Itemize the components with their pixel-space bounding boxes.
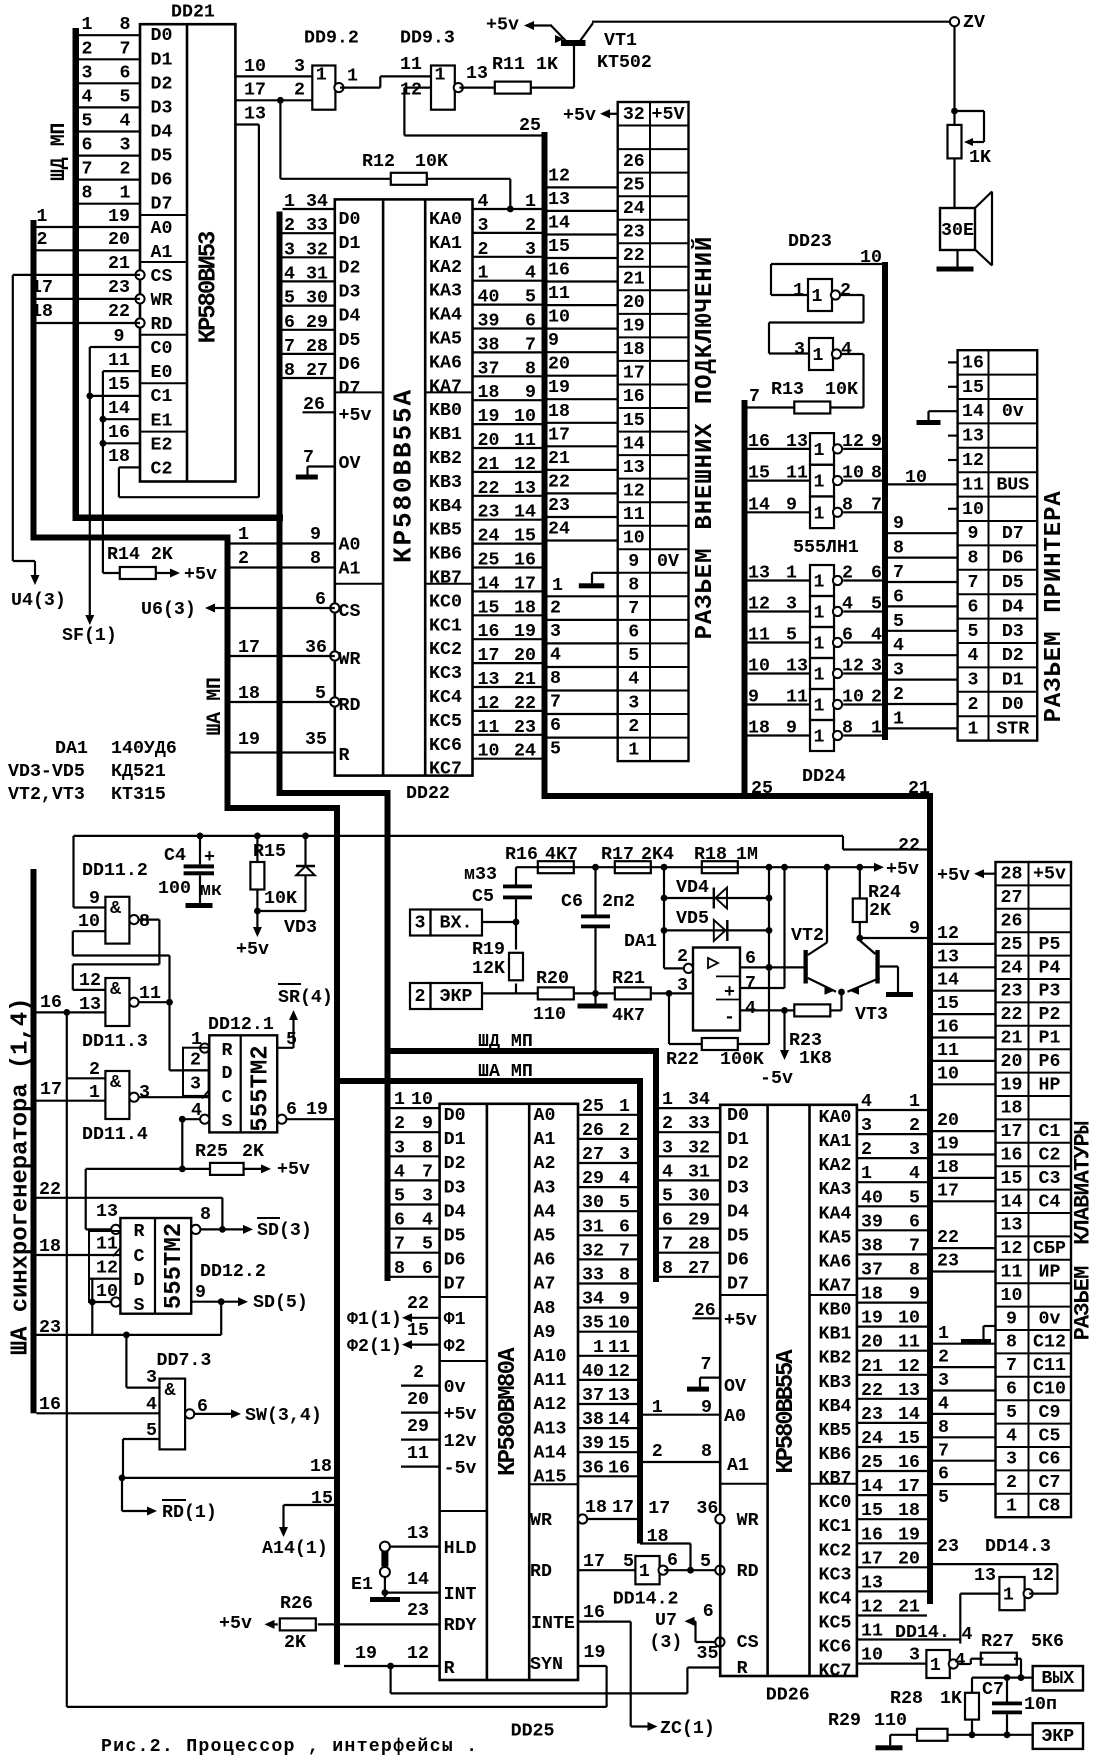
svg-text:RD: RD <box>339 696 361 716</box>
wire bus ShA MP horizontal to DD25 right bus <box>334 1078 643 1544</box>
wire CS of DD22 (pin 6) and U6(3) <box>141 590 360 622</box>
label DD11.2 <box>82 861 148 881</box>
svg-text:5: 5 <box>700 1552 711 1572</box>
svg-text:7: 7 <box>871 495 882 515</box>
svg-text:A3: A3 <box>534 1178 556 1198</box>
svg-text:2: 2 <box>1006 1473 1017 1493</box>
svg-text:23: 23 <box>937 1537 959 1557</box>
pin 23 RDY of DD25 <box>407 1601 477 1636</box>
wire data pin row 4/5 of DD21 <box>79 87 140 107</box>
wire net 3 to connector pin below line 22 <box>548 620 618 642</box>
svg-text:мк: мк <box>200 881 222 901</box>
svg-text:15: 15 <box>514 527 536 547</box>
svg-text:R11: R11 <box>492 55 525 75</box>
svg-text:KA4: KA4 <box>429 306 462 326</box>
wire input 10 of DD11.2 <box>73 912 106 956</box>
wire net 2 to connector pin below line 21 <box>548 596 618 618</box>
svg-text:17: 17 <box>478 646 500 666</box>
wire net 3 to printer pin 3 <box>888 661 958 681</box>
svg-text:1M: 1M <box>736 845 758 865</box>
wire port pin row 18/9 of DD22 <box>473 383 542 403</box>
pin label KB4 of DD26 <box>819 1397 852 1417</box>
wire stub at printer pin 13 <box>948 435 958 437</box>
svg-text:35: 35 <box>697 1644 719 1664</box>
svg-text:R: R <box>134 1222 145 1242</box>
svg-text:KC1: KC1 <box>819 1517 852 1537</box>
svg-text:10: 10 <box>842 464 864 484</box>
wire net 23 to keyboard pin 11 <box>933 1252 996 1272</box>
wire port pin row 3/2 of DD26 <box>857 1116 927 1136</box>
svg-text:25: 25 <box>582 1097 604 1117</box>
svg-text:8: 8 <box>394 1259 405 1279</box>
svg-text:9: 9 <box>786 495 797 515</box>
svg-text:8: 8 <box>968 549 979 569</box>
svg-text:ZC(1): ZC(1) <box>660 1719 715 1739</box>
wire port pin row 14/17 of DD26 <box>857 1477 927 1497</box>
svg-text:1: 1 <box>968 719 979 739</box>
wire net 14 to keyboard pin 23 <box>933 971 996 991</box>
svg-text:DD21: DD21 <box>171 3 215 23</box>
wire net 19 to connector pin 16 <box>548 378 618 399</box>
svg-text:14: 14 <box>514 503 536 523</box>
pin label D0 of DD22 <box>339 210 361 230</box>
svg-text:13: 13 <box>608 1386 630 1406</box>
wire net 13 to keyboard pin 24 <box>933 947 996 967</box>
svg-text:KC0: KC0 <box>429 592 462 612</box>
pin label KB3 of DD26 <box>819 1373 852 1393</box>
pin label D5 of DD26 <box>727 1227 749 1247</box>
svg-text:5: 5 <box>662 1187 673 1207</box>
svg-text:16: 16 <box>898 1453 920 1473</box>
wire HLD of DD25 (pin 13) from jumper E1 <box>390 1524 477 1559</box>
svg-text:13: 13 <box>244 105 266 125</box>
wire bus ShD MP vertical left of DD21 <box>73 28 284 521</box>
svg-text:20: 20 <box>937 1111 959 1131</box>
svg-text:KB0: KB0 <box>819 1301 852 1321</box>
svg-text:WR: WR <box>737 1511 759 1531</box>
svg-text:KA1: KA1 <box>429 234 462 254</box>
svg-text:2: 2 <box>842 564 853 584</box>
svg-text:8: 8 <box>619 1266 630 1286</box>
svg-text:12: 12 <box>96 1259 118 1279</box>
svg-text:SD(3): SD(3) <box>257 1221 312 1241</box>
svg-text:R19: R19 <box>472 940 505 960</box>
svg-text:OV: OV <box>724 1377 746 1397</box>
svg-text:33: 33 <box>688 1114 710 1134</box>
wire DD9.3 output 13 to R11 <box>459 64 495 88</box>
wire address pin row 1/11 of DD25 <box>578 1338 637 1358</box>
pin label D2 of DD25 <box>444 1154 466 1174</box>
svg-text:12: 12 <box>79 971 101 991</box>
svg-text:15: 15 <box>861 1501 883 1521</box>
pin label KB1 of DD22 <box>429 425 462 445</box>
svg-text:14: 14 <box>748 495 770 515</box>
svg-text:16: 16 <box>40 993 62 1013</box>
pin box 10 S of DD12.2 <box>89 1279 120 1302</box>
svg-text:D0: D0 <box>727 1106 749 1126</box>
svg-text:8: 8 <box>200 1205 211 1225</box>
op-amp DA1 140UD6 <box>624 932 756 1031</box>
svg-text:Ф2(1): Ф2(1) <box>347 1337 402 1357</box>
connector external 32-pin table <box>618 102 689 761</box>
wire net 18 to connector pin 15 <box>548 402 618 423</box>
svg-text:C7: C7 <box>982 1680 1004 1700</box>
svg-text:12: 12 <box>478 694 500 714</box>
svg-text:3: 3 <box>294 57 305 77</box>
wire net 17 to connector pin 14 <box>548 425 618 446</box>
wire net 16 to connector pin 21 <box>548 261 618 282</box>
wire data pin row 2/9 of DD25 <box>391 1114 440 1134</box>
wire net 5 to connector pin below line 27 <box>548 738 618 760</box>
svg-text:3: 3 <box>861 1116 872 1136</box>
label 555LN1 <box>793 538 859 558</box>
svg-text:4: 4 <box>968 646 979 666</box>
svg-text:6: 6 <box>120 63 131 83</box>
svg-text:D: D <box>134 1271 145 1291</box>
svg-text:6: 6 <box>82 136 93 156</box>
wire data pin row 3/8 of DD25 <box>391 1138 440 1158</box>
resistor R19 12K <box>472 922 523 993</box>
wire R of DD22 (net 19, pin 35) <box>231 730 350 766</box>
pin label A9 of DD25 <box>534 1323 556 1343</box>
svg-text:KA7: KA7 <box>429 377 462 397</box>
wire port pin row 40/5 of DD22 <box>473 288 542 308</box>
wire bus of sync generator (left edge) <box>31 869 37 1413</box>
svg-text:P2: P2 <box>1039 1005 1061 1025</box>
svg-text:KB6: KB6 <box>819 1445 852 1465</box>
svg-text:A11: A11 <box>534 1371 567 1391</box>
pin box 3 C of DD12.1 <box>183 1070 209 1096</box>
svg-text:10: 10 <box>898 1309 920 1329</box>
svg-text:19: 19 <box>861 1309 883 1329</box>
pin label A8 of DD25 <box>534 1299 556 1319</box>
pin label KB1 of DD26 <box>819 1325 852 1345</box>
label ShD MP vertical <box>48 123 71 181</box>
label DD14.4 split by wire <box>895 1623 973 1645</box>
wire net 1 to printer pin 1 <box>888 709 958 729</box>
svg-text:23: 23 <box>861 1405 883 1425</box>
svg-text:R13: R13 <box>771 380 804 400</box>
svg-text:P3: P3 <box>1039 982 1061 1002</box>
inverter DD14.2 (pins 5-6) <box>613 1551 679 1610</box>
resistor R27 5K6 <box>981 1632 1064 1678</box>
svg-text:C2: C2 <box>151 460 173 480</box>
svg-text:22: 22 <box>478 479 500 499</box>
wire R net loop below DD25 <box>391 1666 688 1693</box>
wire net 23 row <box>37 1318 222 1388</box>
svg-text:D1: D1 <box>151 50 173 70</box>
svg-text:1K: 1K <box>940 1689 962 1709</box>
svg-text:DD24: DD24 <box>802 767 846 787</box>
svg-text:8: 8 <box>701 1442 712 1462</box>
svg-text:20: 20 <box>623 293 645 313</box>
svg-text:VD4: VD4 <box>676 878 709 898</box>
svg-text:4: 4 <box>1006 1426 1017 1446</box>
svg-text:34: 34 <box>688 1090 710 1110</box>
svg-text:24: 24 <box>623 199 645 219</box>
wire port pin row 25/16 of DD26 <box>857 1453 927 1473</box>
svg-text:РАЗЬЕМ: РАЗЬЕМ <box>1071 1266 1096 1341</box>
svg-text:20: 20 <box>514 646 536 666</box>
svg-text:1: 1 <box>628 740 639 760</box>
svg-text:7: 7 <box>422 1162 433 1182</box>
svg-text:A0: A0 <box>151 219 173 239</box>
svg-text:м33: м33 <box>464 865 497 885</box>
wire ZV down to volume pot <box>951 26 958 125</box>
wire port pin row 38/7 of DD22 <box>473 335 542 355</box>
svg-text:4: 4 <box>120 112 131 132</box>
svg-text:4: 4 <box>955 1651 966 1671</box>
svg-text:1: 1 <box>814 728 825 748</box>
svg-text:14: 14 <box>1001 1192 1023 1212</box>
svg-text:17: 17 <box>623 364 645 384</box>
svg-text:2: 2 <box>478 240 489 260</box>
svg-text:3: 3 <box>968 671 979 691</box>
svg-text:ВХ.: ВХ. <box>440 914 473 934</box>
svg-text:R29: R29 <box>828 1711 861 1731</box>
svg-text:38: 38 <box>861 1236 883 1256</box>
svg-text:13: 13 <box>937 947 959 967</box>
svg-text:DA1: DA1 <box>55 739 88 759</box>
pin label KA7 of DD22 <box>429 377 462 397</box>
svg-text:2: 2 <box>662 1114 673 1134</box>
svg-text:4: 4 <box>745 999 756 1019</box>
inverter DD24 (pins 13-12) <box>748 657 883 690</box>
pin label D4 of DD21 <box>151 123 173 143</box>
pin label KB3 of DD22 <box>429 473 462 493</box>
wire output 3 of DD11.4 to DD12.1 C <box>139 1083 210 1103</box>
pin label C1 of DD21 <box>151 387 173 407</box>
wire port pin row 15/18 of DD26 <box>857 1501 927 1521</box>
wire net 22 to DD12.2 top loop <box>37 1180 223 1229</box>
svg-text:KC7: KC7 <box>819 1662 852 1682</box>
pin label KA5 of DD22 <box>429 330 462 350</box>
wire data pin row 4/31 of DD22 <box>283 264 335 284</box>
svg-text:1K8: 1K8 <box>799 1049 832 1069</box>
wire pot to speaker <box>953 159 955 209</box>
label net 21 at bottom bus <box>908 779 930 799</box>
svg-text:22: 22 <box>108 302 130 322</box>
svg-text:7: 7 <box>303 448 314 468</box>
wire net 2 to printer pin 2 <box>888 685 958 705</box>
svg-text:12v: 12v <box>444 1432 477 1452</box>
svg-text:5: 5 <box>550 740 561 760</box>
wire net 20 to keyboard pin 17 <box>933 1111 996 1131</box>
svg-text:P4: P4 <box>1039 958 1061 978</box>
svg-text:KA3: KA3 <box>819 1180 852 1200</box>
wire port pin row 12/22 of DD22 <box>473 694 542 714</box>
svg-text:19: 19 <box>514 622 536 642</box>
svg-text:2: 2 <box>525 216 536 236</box>
wire net 17 to input 1 of DD11.4 <box>37 1080 106 1103</box>
svg-text:19: 19 <box>238 730 260 750</box>
svg-text:1: 1 <box>593 1338 604 1358</box>
wire A1 of DD22 (net 2, pin 8) <box>231 549 361 580</box>
wire output 5 of DD12.1 to SR(4) <box>277 984 333 1050</box>
svg-text:0v: 0v <box>1002 402 1024 422</box>
inverter DD9.2 <box>312 66 343 110</box>
wire port pin row 12/21 of DD26 <box>857 1598 927 1618</box>
svg-text:6: 6 <box>893 587 904 607</box>
wire net 6 to printer pin 6 <box>888 587 958 607</box>
pin label D1 of DD26 <box>727 1130 749 1150</box>
svg-text:3: 3 <box>909 1140 920 1160</box>
svg-text:ПРИНТЕРА: ПРИНТЕРА <box>1041 490 1068 612</box>
svg-text:D4: D4 <box>727 1202 749 1222</box>
svg-text:KB5: KB5 <box>819 1421 852 1441</box>
svg-text:4: 4 <box>550 645 561 665</box>
pin label KB4 of DD22 <box>429 497 462 517</box>
wire port pin row 2/3 of DD26 <box>857 1140 927 1160</box>
svg-text:23: 23 <box>478 503 500 523</box>
svg-text:RDY: RDY <box>444 1616 477 1636</box>
svg-text:4: 4 <box>478 192 489 212</box>
svg-text:KB3: KB3 <box>429 473 462 493</box>
wire output 6 of DD12.1 (net 19) <box>277 1100 334 1124</box>
label SF(1) <box>62 626 117 646</box>
svg-text:21: 21 <box>108 254 130 274</box>
svg-text:9: 9 <box>1006 1309 1017 1329</box>
svg-text:C7: C7 <box>1039 1473 1061 1493</box>
svg-text:13: 13 <box>974 1566 996 1586</box>
wire net 17 to keyboard pin 14 <box>933 1181 996 1201</box>
svg-text:5: 5 <box>619 1193 630 1213</box>
inverter DD24 (pins 3-4) <box>748 595 883 628</box>
wire port pin row 21/12 of DD26 <box>857 1357 927 1377</box>
chip DD12.2 555TM2 <box>120 1218 191 1316</box>
svg-text:+5v: +5v <box>339 406 372 426</box>
ground at keyboard pin 9 (0v) <box>938 1324 996 1344</box>
wire collector VT1 to ZV <box>592 21 950 23</box>
pin label D5 of DD25 <box>444 1227 466 1247</box>
svg-text:555ТМ2: 555ТМ2 <box>161 1223 188 1309</box>
wire data pin row 1/10 of DD25 <box>391 1090 440 1110</box>
svg-text:DD14.2: DD14.2 <box>613 1590 679 1610</box>
svg-text:HLD: HLD <box>444 1539 477 1559</box>
wire data pin row 2/33 of DD26 <box>659 1114 720 1134</box>
pin label KB5 of DD26 <box>819 1421 852 1441</box>
wire net 4 to keyboard pin 6 <box>933 1391 996 1415</box>
wire F2 clock of DD25 (net 15) <box>347 1321 466 1357</box>
svg-text:D2: D2 <box>444 1154 466 1174</box>
svg-text:17: 17 <box>898 1477 920 1497</box>
svg-text:D4: D4 <box>151 123 173 143</box>
svg-text:2: 2 <box>89 1060 100 1080</box>
pin box 12 D of DD12.2 <box>89 1255 120 1279</box>
wire output 11 of DD11.3 loop to input 10 <box>73 956 173 1006</box>
svg-text:14: 14 <box>478 574 500 594</box>
svg-text:28: 28 <box>1001 865 1023 885</box>
svg-text:6: 6 <box>662 1211 673 1231</box>
svg-text:1: 1 <box>435 66 446 86</box>
svg-text:D5: D5 <box>444 1227 466 1247</box>
inverter DD14.4 (pins 3-4) <box>926 1650 965 1678</box>
svg-text:32: 32 <box>582 1241 604 1261</box>
svg-text:-5v: -5v <box>444 1459 477 1479</box>
wire port pin row 11/ of DD26 <box>857 1622 960 1642</box>
svg-text:7: 7 <box>968 573 979 593</box>
svg-text:DD14.3: DD14.3 <box>985 1537 1051 1557</box>
wire net 8 to keyboard pin 5 <box>933 1414 996 1438</box>
wire port pin row 17/20 of DD26 <box>857 1549 927 1569</box>
resistor R18 1M <box>694 845 758 873</box>
chip DD12.1 555TM2 <box>209 1035 277 1132</box>
svg-text:18: 18 <box>748 719 770 739</box>
svg-text:KB4: KB4 <box>819 1397 852 1417</box>
label parts list VD3-VD5 KD521 <box>8 762 166 782</box>
svg-text:11: 11 <box>407 1444 429 1464</box>
svg-text:6: 6 <box>938 1465 949 1485</box>
svg-text:8: 8 <box>938 1418 949 1438</box>
svg-text:25: 25 <box>519 116 541 136</box>
svg-text:D0: D0 <box>151 26 173 46</box>
svg-text:R28: R28 <box>890 1689 923 1709</box>
svg-text:6: 6 <box>667 1551 678 1571</box>
wire net 15 to connector pin 22 <box>548 237 618 258</box>
svg-text:37: 37 <box>478 359 500 379</box>
svg-text:6: 6 <box>550 716 561 736</box>
svg-text:22: 22 <box>1001 1005 1023 1025</box>
svg-text:14: 14 <box>898 1405 920 1425</box>
svg-text:D5: D5 <box>1002 573 1024 593</box>
svg-text:KB3: KB3 <box>819 1373 852 1393</box>
wire address pin row 30/5 of DD25 <box>578 1193 637 1213</box>
svg-text:D1: D1 <box>444 1130 466 1150</box>
svg-text:18: 18 <box>623 340 645 360</box>
svg-text:8: 8 <box>1006 1333 1017 1353</box>
svg-text:1: 1 <box>871 719 882 739</box>
pin label E2 of DD21 <box>151 435 173 455</box>
svg-text:3: 3 <box>525 240 536 260</box>
svg-text:10K: 10K <box>825 380 858 400</box>
svg-text:10: 10 <box>748 657 770 677</box>
svg-text:3: 3 <box>550 622 561 642</box>
svg-text:2: 2 <box>861 1140 872 1160</box>
svg-text:D1: D1 <box>1002 671 1024 691</box>
svg-text:6: 6 <box>422 1259 433 1279</box>
wire RD of DD25 (pin 17) to DD14.2 <box>530 1552 635 1582</box>
wire port pin row 3/2 of DD22 <box>473 216 542 236</box>
svg-text:KC3: KC3 <box>819 1565 852 1585</box>
svg-text:1: 1 <box>238 525 249 545</box>
pin label D3 of DD22 <box>339 282 361 302</box>
svg-text:35: 35 <box>305 730 327 750</box>
svg-text:8: 8 <box>139 912 150 932</box>
pin box 11 C of DD12.2 <box>89 1231 120 1255</box>
label DD21 <box>171 3 215 23</box>
wire net 12 to connector pin 25 <box>548 166 618 187</box>
resistor R17 2K4 <box>601 845 674 873</box>
svg-text:ВЫХ: ВЫХ <box>1041 1669 1074 1689</box>
wire input 9 of DD11.2 <box>74 889 106 909</box>
pin label D6 of DD22 <box>339 355 361 375</box>
resistor R22 100K feedback <box>666 990 769 1070</box>
wire address pin row 27/3 of DD25 <box>578 1145 637 1165</box>
svg-text:12: 12 <box>842 657 864 677</box>
wire port pin row 13/ of DD26 <box>857 1573 927 1593</box>
wire net 7 to connector pin below line 25 <box>548 691 618 713</box>
svg-text:15: 15 <box>898 1429 920 1449</box>
svg-text:KC7: KC7 <box>429 760 462 780</box>
svg-text:HP: HP <box>1039 1075 1061 1095</box>
svg-text:A2: A2 <box>534 1154 556 1174</box>
svg-text:9: 9 <box>114 327 125 347</box>
svg-text:19: 19 <box>584 1643 606 1663</box>
label ShA MP vertical (near x227 bus) <box>204 677 227 735</box>
wire feedback loop right (x769) <box>766 867 773 1044</box>
svg-text:KB4: KB4 <box>429 497 462 517</box>
svg-text:D3: D3 <box>151 98 173 118</box>
